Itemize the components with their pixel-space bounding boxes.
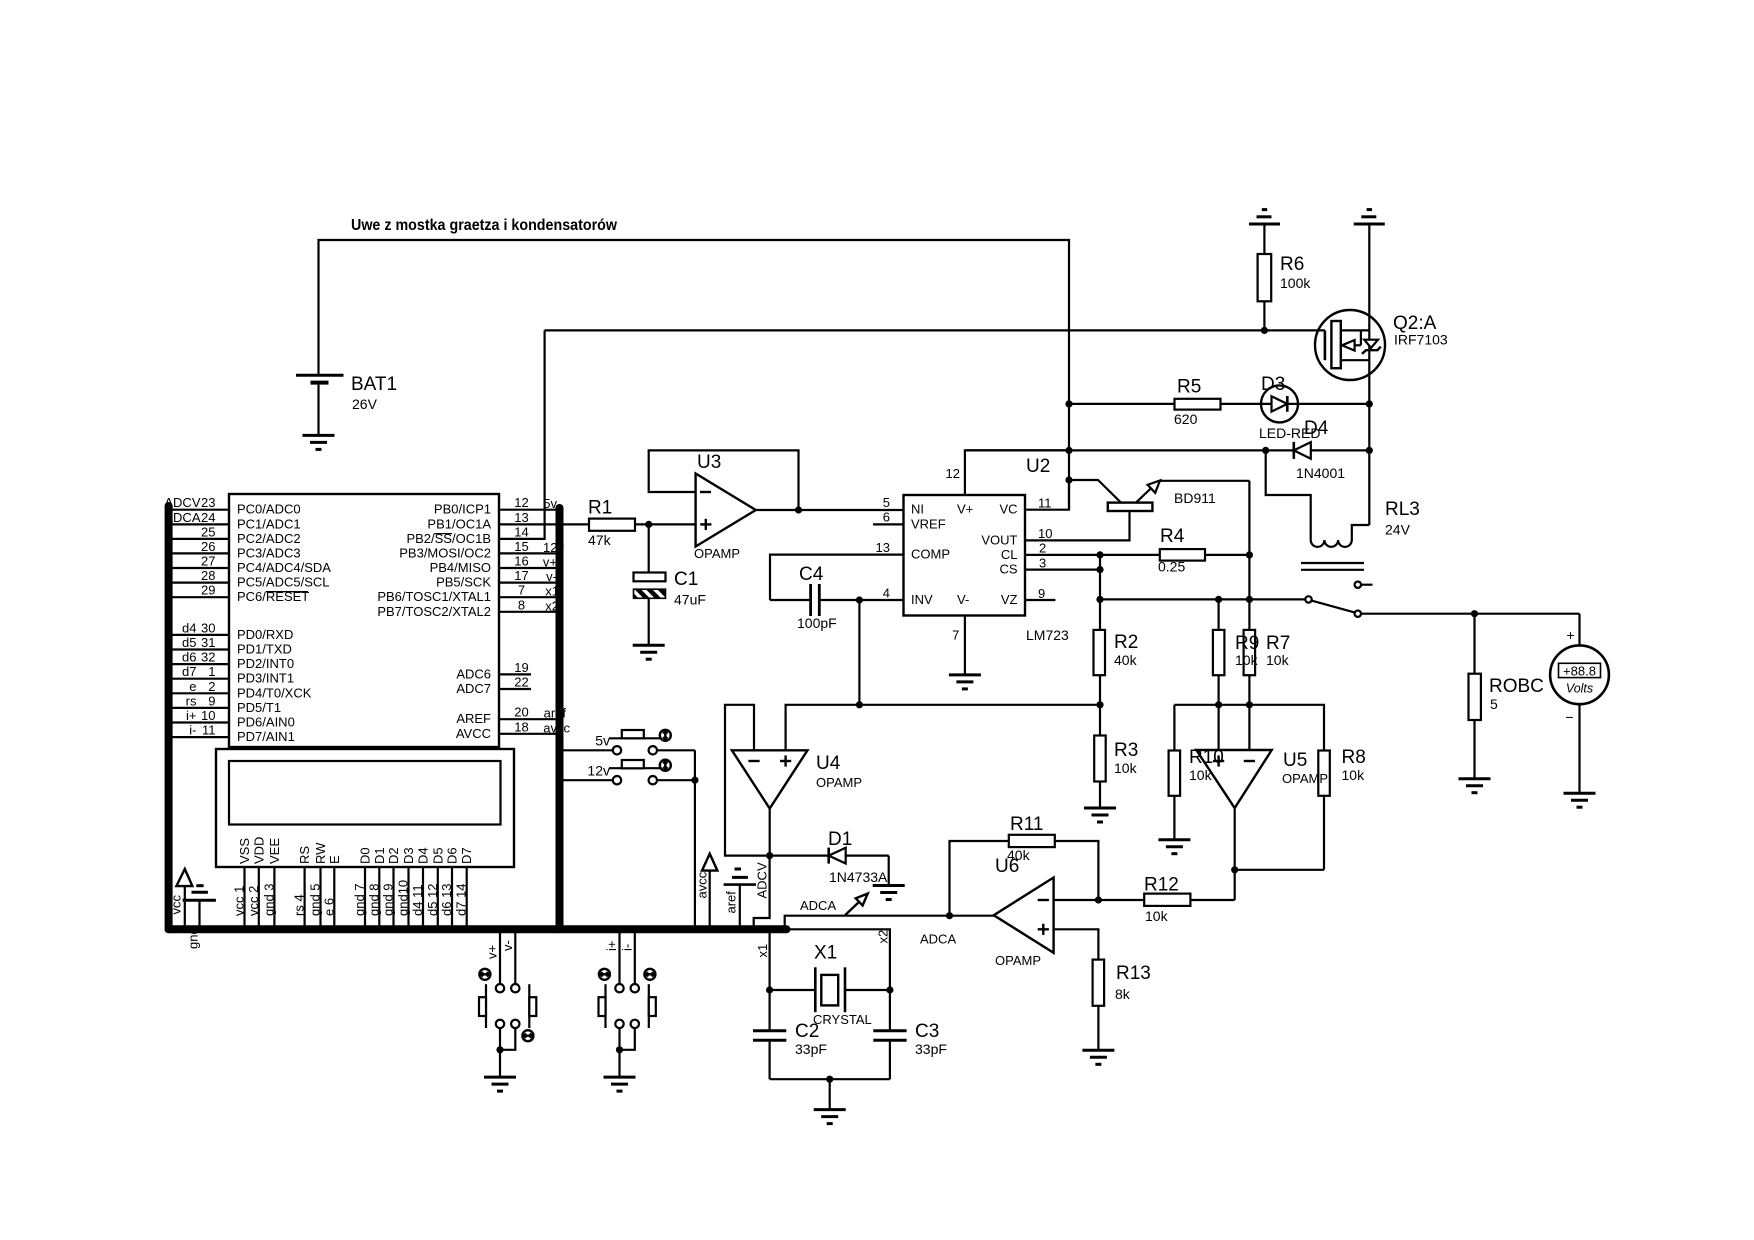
svg-text:U5: U5 (1283, 750, 1307, 771)
svg-text:47uF: 47uF (674, 592, 706, 608)
wire gate net PB2 to Q2 (545, 329, 1325, 331)
wire U2 VC pin 11 (1025, 480, 1069, 510)
svg-text:PB0/ICP1: PB0/ICP1 (434, 502, 491, 517)
svg-text:i+: i+ (604, 941, 619, 951)
svg-text:12: 12 (514, 495, 528, 510)
wire Q2 drain/source vertical (1368, 224, 1370, 525)
U2 pin numbers (876, 466, 960, 643)
wire R8 bottom to U5 output (1235, 869, 1324, 871)
svg-text:R10: R10 (1189, 747, 1224, 768)
button i+ (vertical) (599, 929, 624, 1028)
svg-text:BD911: BD911 (1174, 490, 1216, 506)
wires v buttons to ground (500, 1028, 515, 1077)
op-amp U6 (pointing left) (994, 856, 1054, 968)
svg-text:18: 18 (514, 719, 528, 734)
svg-text:x2: x2 (875, 930, 890, 944)
overline RESET (266, 591, 308, 593)
svg-text:aref: aref (724, 891, 739, 914)
actuator markers i+/i- (599, 969, 656, 980)
svg-text:1N4001: 1N4001 (1296, 465, 1345, 481)
svg-text:100pF: 100pF (797, 615, 837, 631)
svg-text:PD7/AIN1: PD7/AIN1 (237, 729, 295, 744)
svg-text:PB7/TOSC2/XTAL2: PB7/TOSC2/XTAL2 (377, 604, 491, 619)
wire U6 plus input to R13 (1054, 929, 1099, 959)
bus left vertical (165, 506, 173, 929)
button i- (vertical) (619, 929, 656, 1028)
svg-text:U3: U3 (697, 452, 721, 473)
svg-text:VDD: VDD (251, 837, 266, 864)
diode D3 LED-RED (1259, 374, 1320, 441)
svg-text:D3: D3 (401, 847, 416, 864)
svg-text:R2: R2 (1114, 632, 1138, 653)
junction INV node (856, 596, 863, 603)
svg-text:R8: R8 (1342, 747, 1366, 768)
wire U2 COMP pin 13 (770, 555, 904, 600)
svg-text:PC5/ADC5/SCL: PC5/ADC5/SCL (237, 575, 329, 590)
svg-text:11: 11 (202, 723, 216, 738)
junction ROBC tap (1471, 610, 1478, 617)
transistor BD911 (1069, 480, 1249, 511)
svg-text:PD1/TXD: PD1/TXD (237, 642, 292, 657)
resistor R3 (1094, 705, 1138, 808)
svg-text:6: 6 (883, 510, 890, 525)
MCU right pin names (377, 502, 491, 741)
svg-text:PD5/T1: PD5/T1 (237, 700, 281, 715)
ground (U2) (949, 675, 981, 689)
resistor R5 (1174, 377, 1221, 428)
junction buttons gnd (691, 777, 698, 784)
svg-text:47k: 47k (588, 532, 612, 548)
ground (D1) (873, 886, 905, 900)
svg-text:+: + (1566, 627, 1574, 643)
svg-text:2: 2 (1039, 541, 1046, 556)
wire U3 output to U2 NI (756, 509, 904, 511)
svg-text:OPAMP: OPAMP (995, 953, 1041, 968)
LCD pin names rotated (237, 837, 474, 864)
junction CL (1096, 551, 1103, 558)
junction ADCA/U6 feedback (946, 912, 953, 919)
svg-text:C2: C2 (795, 1021, 819, 1042)
svg-text:VZ: VZ (1001, 592, 1018, 607)
ground (v buttons) (484, 1077, 516, 1091)
svg-text:PD3/INT1: PD3/INT1 (237, 671, 294, 686)
svg-text:R3: R3 (1114, 740, 1138, 761)
wire PB2 net to MOSFET gate line (499, 330, 545, 539)
junction v buttons (496, 1046, 503, 1053)
svg-text:1: 1 (208, 664, 215, 679)
wire U6 minus input (1054, 899, 1099, 901)
svg-text:v+: v+ (485, 945, 500, 959)
ground (R13) (1082, 1050, 1114, 1064)
U2 pin names (911, 502, 973, 607)
svg-text:PB5/SCK: PB5/SCK (436, 575, 491, 590)
svg-text:OPAMP: OPAMP (694, 546, 740, 561)
svg-text:D7: D7 (459, 847, 474, 864)
svg-text:10k: 10k (1266, 652, 1290, 668)
svg-text:rs 4: rs 4 (292, 894, 307, 916)
svg-text:17: 17 (514, 568, 528, 583)
MCU left pin wires PD0-PD7 (169, 635, 229, 737)
svg-text:27: 27 (201, 554, 215, 569)
wire Uwe net from BAT1 to right vertical feed (319, 240, 1070, 510)
LCD pin stubs to bus (245, 867, 467, 929)
svg-text:d5 12: d5 12 (425, 883, 440, 916)
svg-text:D1: D1 (372, 847, 387, 864)
junction R1/C1/U3+ (645, 521, 652, 528)
probe arrow on ADCA (845, 894, 868, 916)
svg-text:D2: D2 (386, 847, 401, 864)
svg-text:D4: D4 (1304, 418, 1329, 439)
svg-text:vcc 1: vcc 1 (232, 886, 247, 916)
svg-text:U2: U2 (1026, 456, 1050, 477)
svg-text:OPAMP: OPAMP (1282, 771, 1328, 786)
LCD screen area (229, 761, 501, 825)
svg-text:COMP: COMP (911, 547, 950, 562)
svg-text:ADC7: ADC7 (456, 681, 491, 696)
junction relay right (1366, 447, 1373, 454)
junction i buttons (616, 1046, 623, 1053)
svg-text:10k: 10k (1114, 760, 1138, 776)
svg-text:30: 30 (201, 620, 215, 635)
ground (ROBC) (1459, 779, 1491, 793)
svg-text:9: 9 (208, 693, 215, 708)
svg-text:V+: V+ (957, 502, 973, 517)
svg-text:RW: RW (313, 842, 328, 864)
svg-text:13: 13 (876, 540, 890, 555)
relay RL3 coil (1266, 450, 1420, 569)
svg-text:R13: R13 (1116, 963, 1151, 984)
junction R9 bottom (1215, 701, 1222, 708)
resistor R7 (1235, 630, 1290, 750)
junction x2/crystal (886, 986, 893, 993)
junction VC node (1065, 476, 1072, 483)
svg-text:PC1/ADC1: PC1/ADC1 (237, 516, 301, 531)
svg-text:VEE: VEE (267, 838, 282, 864)
svg-text:IRF7103: IRF7103 (1394, 332, 1448, 348)
svg-text:VREF: VREF (911, 516, 946, 531)
svg-text:gnd 5: gnd 5 (308, 883, 323, 916)
svg-text:ADCV: ADCV (755, 862, 770, 898)
capacitor C4 (797, 564, 837, 631)
junction U4 plus node (856, 701, 863, 708)
junction U5 output/R8 (1231, 866, 1238, 873)
wire V+/D4 line (965, 449, 1369, 451)
resistor R11 feedback (950, 814, 1099, 916)
wire U2 CS pin 3 (1025, 568, 1100, 570)
svg-text:R9: R9 (1235, 633, 1259, 654)
svg-text:gnd 3: gnd 3 (261, 883, 276, 916)
MCU right pin wires (499, 510, 560, 734)
ground (BAT1) (303, 435, 335, 449)
svg-text:+88.8: +88.8 (1563, 663, 1596, 678)
button 5v (564, 730, 695, 755)
svg-text:x1: x1 (755, 944, 770, 958)
svg-text:e 6: e 6 (321, 898, 336, 916)
actuator marker 5v (660, 730, 671, 741)
MCU right pin numbers (514, 495, 528, 734)
svg-text:v-: v- (500, 940, 515, 951)
svg-text:gnd10: gnd10 (396, 880, 411, 916)
diode D4 1N4001 (1294, 418, 1345, 481)
svg-text:12: 12 (946, 466, 960, 481)
svg-text:i+: i+ (186, 708, 196, 723)
wire U2 V+ pin 12 (965, 450, 1069, 495)
junction R5 line left (1065, 400, 1072, 407)
svg-text:32: 32 (201, 650, 215, 665)
svg-text:10: 10 (1038, 526, 1052, 541)
button 12v (564, 760, 695, 784)
power flag above R6 (1249, 210, 1280, 254)
svg-text:R12: R12 (1144, 875, 1179, 896)
cell symbol at MCU bottom left (183, 886, 216, 930)
svg-text:C1: C1 (674, 569, 698, 590)
svg-text:2: 2 (208, 679, 215, 694)
wire CL/CS junction vertical to R2 (1099, 555, 1101, 630)
svg-text:Uwe z mostka graetza i kondens: Uwe z mostka graetza i kondensatorów (351, 217, 617, 234)
resistor R10 (1169, 751, 1181, 840)
wire U4 minus feedback loop (725, 705, 770, 856)
svg-text:C3: C3 (915, 1021, 939, 1042)
svg-text:avcc: avcc (695, 871, 710, 898)
svg-text:ADC6: ADC6 (456, 666, 491, 681)
svg-text:CS: CS (999, 562, 1017, 577)
svg-text:gnd 9: gnd 9 (381, 883, 396, 916)
cell symbol aref (724, 869, 756, 929)
junction relay left (1262, 447, 1269, 454)
svg-text:23: 23 (201, 495, 215, 510)
wire gnd net from buttons to bus (694, 750, 696, 929)
resistor R9 (1213, 599, 1225, 704)
svg-text:10k: 10k (1235, 652, 1259, 668)
svg-text:BAT1: BAT1 (351, 374, 397, 395)
svg-text:3: 3 (1039, 555, 1046, 570)
ground (i buttons) (604, 1077, 636, 1091)
svg-text:620: 620 (1174, 411, 1198, 427)
capacitor C3 (873, 990, 947, 1079)
ground (voltmeter) (1564, 793, 1596, 807)
svg-text:4: 4 (883, 585, 890, 600)
wire U2 CL pin 2 / R4 line (1025, 554, 1160, 556)
svg-text:PB6/TOSC1/XTAL1: PB6/TOSC1/XTAL1 (377, 589, 491, 604)
svg-text:15: 15 (514, 539, 528, 554)
button v+ (vertical) (479, 929, 504, 1028)
svg-text:−: − (1565, 709, 1573, 725)
wire ADCA net from bus to U6 output (785, 916, 994, 930)
actuator marker 12v (660, 760, 671, 771)
svg-text:d7 14: d7 14 (454, 883, 469, 916)
wire R7 bottom to R8 top (1249, 705, 1324, 751)
svg-text:VC: VC (999, 502, 1017, 517)
resistor R13 (1093, 960, 1151, 1051)
svg-text:10k: 10k (1342, 767, 1366, 783)
wire BD911 emitter vertical to R4/R7 (1248, 481, 1250, 630)
svg-text:R7: R7 (1266, 633, 1290, 654)
MCU left pin names (237, 502, 331, 744)
svg-text:D6: D6 (445, 847, 460, 864)
svg-text:5: 5 (1490, 696, 1498, 712)
svg-text:d4: d4 (182, 620, 196, 635)
svg-text:ADCA: ADCA (800, 898, 836, 913)
svg-text:d6 13: d6 13 (439, 883, 454, 916)
MCU left net labels (164, 495, 200, 737)
wire ADCV net tap to bus (754, 856, 770, 930)
op-amp U3 (694, 452, 756, 561)
wire PB1 net to R1 (499, 523, 589, 525)
svg-text:10k: 10k (1189, 767, 1213, 783)
svg-text:20: 20 (514, 705, 528, 720)
svg-text:10k: 10k (1145, 908, 1169, 924)
svg-text:PB4/MISO: PB4/MISO (430, 560, 491, 575)
svg-text:R1: R1 (588, 498, 612, 519)
svg-text:E: E (327, 855, 342, 864)
ground (C1) (633, 645, 665, 659)
svg-text:AVCC: AVCC (456, 726, 491, 741)
op-amp U4 (732, 750, 862, 808)
wire R5/D3 line (1069, 403, 1369, 405)
power flag above Q2 (1354, 210, 1385, 224)
svg-text:29: 29 (201, 583, 215, 598)
svg-text:RS: RS (297, 846, 312, 864)
wire U4 plus input to INV net (786, 705, 1100, 751)
wire x1 net (768, 929, 770, 990)
MCU left pin numbers (201, 495, 215, 737)
resistor R12 (1098, 875, 1234, 925)
svg-text:26: 26 (201, 539, 215, 554)
svg-text:PC4/ADC4/SDA: PC4/ADC4/SDA (237, 560, 331, 575)
resistor R2 (1094, 630, 1139, 705)
junction R2/R3 (1096, 701, 1103, 708)
ground (R3) (1084, 808, 1116, 822)
wires i buttons to ground (620, 1028, 635, 1077)
bus right vertical (556, 508, 564, 929)
svg-text:RL3: RL3 (1385, 499, 1420, 520)
svg-text:Volts: Volts (1566, 682, 1593, 696)
svg-text:d6: d6 (182, 650, 196, 665)
svg-text:R4: R4 (1160, 526, 1185, 547)
power flag avcc arrow (695, 854, 718, 930)
svg-text:PC2/ADC2: PC2/ADC2 (237, 531, 301, 546)
svg-text:INV: INV (911, 592, 933, 607)
junction at emitter vertical (1246, 596, 1253, 603)
svg-text:d7: d7 (182, 664, 196, 679)
svg-text:40k: 40k (1007, 847, 1031, 863)
svg-text:PB3/MOSI/OC2: PB3/MOSI/OC2 (399, 545, 491, 560)
svg-text:25: 25 (201, 524, 215, 539)
svg-text:33pF: 33pF (915, 1041, 947, 1057)
IC U1 microcontroller ATmega box (229, 494, 499, 747)
wire x2 net (787, 929, 890, 990)
svg-text:D0: D0 (358, 847, 373, 864)
wire R4 right lead (1205, 554, 1249, 556)
svg-text:PC3/ADC3: PC3/ADC3 (237, 545, 301, 560)
overline SS (435, 533, 453, 535)
svg-text:9: 9 (1038, 586, 1045, 601)
svg-text:R6: R6 (1280, 254, 1304, 275)
labels R10 U5 over shapes (1189, 747, 1328, 786)
svg-text:31: 31 (201, 635, 215, 650)
IC U2 LM723 box (904, 456, 1070, 643)
resistor R6 (1258, 254, 1312, 330)
svg-text:CL: CL (1001, 547, 1018, 562)
svg-text:10: 10 (201, 708, 215, 723)
svg-text:14: 14 (514, 524, 528, 539)
resistor R8 (1318, 747, 1365, 870)
svg-text:X1: X1 (814, 943, 837, 964)
svg-text:VSS: VSS (237, 838, 252, 864)
junction V+ line at vertical (1065, 447, 1072, 454)
wire INV node down to U4 plus line (858, 600, 860, 705)
svg-text:PD0/RXD: PD0/RXD (237, 627, 293, 642)
wire U2 V- pin 7 to ground (964, 616, 966, 675)
svg-text:8k: 8k (1115, 986, 1131, 1002)
wire switch output to voltmeter (1361, 613, 1580, 615)
svg-text:19: 19 (514, 660, 528, 675)
svg-text:CRYSTAL: CRYSTAL (813, 1012, 872, 1027)
resistor R1 (588, 498, 696, 549)
svg-text:gnd 8: gnd 8 (366, 883, 381, 916)
junction R4 right (1246, 551, 1253, 558)
svg-text:NI: NI (911, 502, 924, 517)
svg-text:22: 22 (514, 675, 528, 690)
junction CS (1096, 566, 1103, 573)
wire U2 INV pin 4 (770, 599, 904, 601)
svg-text:d4 11: d4 11 (410, 884, 425, 916)
junction U4 output node (766, 852, 773, 859)
junction x1/crystal (766, 986, 773, 993)
wire VZ row line to switch (1100, 598, 1305, 600)
svg-text:D3: D3 (1261, 374, 1285, 395)
svg-text:vcc 2: vcc 2 (246, 886, 261, 916)
actuator markers v+/v- (479, 969, 533, 1041)
svg-text:e: e (189, 679, 196, 694)
voltmeter ROBC display (1550, 614, 1609, 794)
svg-text:d5: d5 (182, 635, 196, 650)
svg-text:i-: i- (189, 723, 196, 738)
wire U2 VZ stub pin 9 (1025, 599, 1055, 601)
svg-text:33pF: 33pF (795, 1041, 827, 1057)
svg-text:D4: D4 (416, 847, 431, 864)
svg-text:gnd 7: gnd 7 (352, 883, 367, 916)
svg-text:7: 7 (518, 583, 525, 598)
svg-text:D5: D5 (430, 847, 445, 864)
svg-text:PD4/T0/XCK: PD4/T0/XCK (237, 685, 312, 700)
svg-text:ADCA: ADCA (920, 932, 956, 947)
LCD display module box (216, 749, 514, 867)
svg-text:7: 7 (952, 628, 959, 643)
svg-text:11: 11 (1038, 496, 1052, 511)
svg-text:ROBC: ROBC (1489, 676, 1544, 697)
junction R7 bottom (1246, 701, 1253, 708)
svg-text:LM723: LM723 (1026, 627, 1069, 643)
junction U6 minus/R11/R12 (1095, 896, 1102, 903)
svg-text:12v: 12v (587, 763, 610, 779)
ground (crystal) (814, 1110, 846, 1124)
svg-text:PD6/AIN0: PD6/AIN0 (237, 715, 295, 730)
svg-text:VOUT: VOUT (981, 532, 1017, 547)
svg-text:rs: rs (186, 693, 197, 708)
junction R6/gate (1261, 327, 1268, 334)
svg-text:40k: 40k (1114, 652, 1138, 668)
MCU left pin wires PC0-PC6 (169, 510, 229, 598)
resistor ROBC (1469, 614, 1544, 779)
svg-text:24V: 24V (1385, 522, 1411, 538)
svg-text:PB1/OC1A: PB1/OC1A (427, 516, 491, 531)
junction U3 output (795, 506, 802, 513)
wire U4 output (769, 809, 771, 856)
svg-text:C4: C4 (799, 564, 824, 585)
battery BAT1 (296, 374, 397, 435)
wire U2 VOUT pin 10 to BD911 base (1025, 511, 1130, 540)
